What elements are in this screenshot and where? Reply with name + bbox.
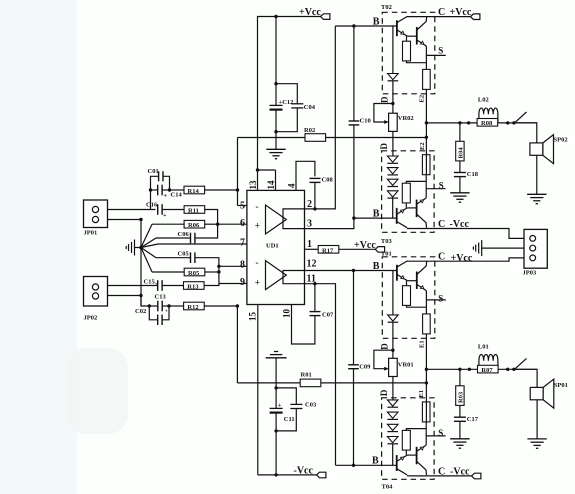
capacitor C09 [348, 271, 359, 466]
diode D lower single [388, 271, 399, 359]
resistor R06 [152, 220, 218, 228]
svg-text:R02: R02 [304, 127, 315, 134]
node C13 right junction [167, 304, 170, 307]
switch blade upper [514, 112, 527, 124]
resistor R13 [184, 282, 219, 290]
svg-text:D: D [379, 143, 389, 150]
svg-text:C02: C02 [135, 308, 146, 315]
capacitor C12 [270, 105, 283, 131]
svg-text:C11: C11 [284, 416, 295, 423]
svg-text:L01: L01 [478, 343, 489, 350]
svg-text:8: 8 [240, 260, 245, 271]
node T01 base junction [352, 269, 355, 272]
svg-text:C05: C05 [178, 251, 190, 258]
node R01 output junction [425, 381, 428, 384]
wire T02 base row [335, 25, 397, 27]
wire pin7 [141, 244, 247, 248]
svg-text:T02: T02 [381, 4, 392, 11]
svg-text:+: + [164, 193, 168, 200]
svg-text:JP03: JP03 [523, 270, 537, 277]
node C11 top junction [274, 386, 277, 389]
transistor T02 dashed box [382, 12, 435, 94]
node R03 junction [458, 368, 461, 371]
wire output rail lower [426, 368, 537, 370]
connector JP01 [84, 200, 108, 228]
resistor R01 [300, 379, 321, 387]
svg-text:C14: C14 [171, 192, 183, 199]
resistor R17 [318, 246, 339, 254]
connector JP03 [524, 229, 547, 268]
svg-text:S: S [438, 293, 443, 303]
capacitor C10 [349, 26, 360, 218]
svg-text:B: B [372, 456, 379, 467]
faint smudge [66, 348, 128, 434]
wire C12 branch vertical [275, 17, 277, 106]
svg-text:S: S [438, 428, 443, 438]
svg-text:C10: C10 [360, 118, 371, 125]
svg-text:B: B [373, 16, 380, 27]
capacitor C16 [158, 204, 184, 215]
connector JP02 [84, 277, 108, 307]
svg-text:5: 5 [240, 200, 245, 211]
node C01 left junction [149, 188, 152, 191]
node pin8 junction [217, 265, 220, 268]
wire to top-mid ground [275, 132, 277, 150]
node C11 bottom junction [274, 429, 277, 432]
op-amp B triangle [266, 261, 287, 290]
wire VR02 to diode chain [392, 131, 394, 156]
ground top-mid [266, 149, 285, 158]
node ground fan center [139, 246, 143, 250]
svg-text:C06: C06 [178, 231, 190, 238]
svg-text:+Vcc: +Vcc [299, 7, 321, 18]
capacitor C04 [276, 104, 303, 132]
wire T03 emitter to feedback node [425, 137, 427, 174]
svg-text:D: D [379, 389, 389, 396]
wire T02 emitter to output rail [425, 89, 427, 123]
resistor R04 [456, 123, 464, 161]
svg-text:R14: R14 [188, 188, 200, 195]
svg-text:+: + [255, 221, 260, 231]
svg-text:D: D [380, 96, 390, 103]
node R12 right junction [236, 304, 239, 307]
svg-text:VR02: VR02 [398, 115, 414, 122]
svg-text:R17: R17 [322, 247, 334, 254]
node L02 left junction [467, 121, 470, 124]
svg-text:+Vcc: +Vcc [451, 253, 473, 264]
svg-text:T04: T04 [382, 483, 394, 490]
speaker SP01 [530, 379, 554, 408]
ground C18 [450, 193, 469, 202]
svg-text:R11: R11 [188, 208, 199, 215]
speaker SP02 [530, 135, 554, 164]
svg-text:E2: E2 [419, 95, 426, 103]
node switch left junction [506, 121, 509, 124]
wire pin12 to T01 base [305, 270, 397, 272]
wire pin1 [305, 248, 319, 250]
node pin6 junction [216, 223, 219, 226]
node T03 base junction [352, 216, 355, 219]
resistor R11 [184, 206, 218, 225]
svg-text:R04: R04 [458, 147, 465, 159]
node junction top rail [274, 15, 277, 18]
wire C05R05 vertical [218, 266, 220, 283]
wire output to feedback node [425, 123, 427, 137]
wire fan to R06 [141, 224, 152, 247]
wire to speaker SP01 [514, 369, 537, 387]
resistor R12 [169, 302, 237, 310]
wire T01 collector C wire [407, 258, 524, 261]
diode D upper single [388, 26, 399, 113]
svg-text:R05: R05 [188, 270, 200, 277]
wire T04 base row [336, 464, 397, 466]
node VR01 top junction [391, 349, 394, 352]
svg-text:2: 2 [307, 199, 312, 210]
svg-text:R06: R06 [188, 222, 200, 229]
capacitor C05 [156, 252, 219, 266]
node -Vcc wire junction [274, 473, 277, 476]
svg-text:+Vcc: +Vcc [450, 7, 472, 18]
node C08 pin2 junction [313, 207, 316, 210]
wire T04 collector C wire [407, 475, 472, 477]
transistor T01 darlington pair [397, 261, 446, 334]
wire -Vcc bottom [258, 474, 317, 476]
wire SP01 to ground [536, 400, 538, 439]
svg-text:12: 12 [307, 258, 317, 269]
wire +Vcc top rail [258, 17, 321, 138]
node switch left junction lower [506, 368, 509, 371]
wire pin2 to T02 base riser [305, 26, 336, 209]
node C12 top junction [274, 82, 277, 85]
potentiometer VR01 [374, 350, 397, 376]
svg-text:-Vcc: -Vcc [450, 219, 470, 230]
ground SP02 [527, 194, 546, 203]
wire left rail to IC pin13 [257, 138, 259, 171]
svg-text:R08: R08 [481, 120, 493, 127]
wire to speaker SP02 [514, 123, 537, 143]
wire T04 emitter to R01 node [425, 383, 427, 422]
node output E junction lower [425, 368, 428, 371]
svg-text:-Vcc: -Vcc [294, 465, 314, 476]
resistor R02 [305, 134, 326, 142]
svg-text:3: 3 [307, 219, 312, 230]
svg-text:E1: E1 [418, 390, 425, 398]
transistor T01 dashed box [382, 257, 435, 339]
wire JP03 ground pin [482, 247, 524, 249]
svg-text:C: C [438, 219, 445, 230]
wire C04 branch top [276, 84, 297, 104]
svg-text:C08: C08 [322, 177, 334, 184]
svg-text:S: S [439, 181, 444, 191]
transistor T03 dashed box [382, 151, 435, 233]
wire C11 rail to -Vcc wire [275, 431, 277, 475]
transistor T02 darlington pair [397, 16, 446, 89]
node R14 feedback junction [236, 188, 239, 191]
svg-text:C: C [438, 7, 445, 18]
capacitor C17 [454, 405, 466, 438]
capacitor C08 [310, 178, 321, 209]
svg-text:9: 9 [240, 277, 245, 288]
capacitor C11 [270, 388, 283, 431]
wire R12 node down to R01 row [236, 306, 238, 383]
wire VR01 to diode chain [392, 377, 394, 400]
inductor L01 [479, 354, 498, 369]
wire R01 row [237, 382, 426, 384]
left margin tint band [0, 0, 77, 494]
node switch pivot junction lower [512, 368, 515, 371]
svg-text:R01: R01 [301, 371, 312, 378]
svg-text:JP02: JP02 [84, 315, 98, 322]
svg-text:7: 7 [240, 238, 245, 249]
node L01 left junction [468, 368, 471, 371]
ground bottom-mid [266, 352, 287, 388]
svg-text:JP01: JP01 [84, 230, 98, 237]
transistor T04 darlington pair [397, 402, 446, 475]
svg-text:-: - [256, 201, 259, 211]
svg-text:C18: C18 [467, 171, 479, 178]
svg-text:6: 6 [240, 218, 245, 229]
ground input fan [126, 240, 141, 256]
potentiometer VR02 [374, 104, 397, 132]
svg-text:+: + [278, 402, 282, 409]
transistor T04 dashed box [382, 398, 435, 480]
node switch pivot junction [512, 121, 515, 124]
svg-text:C: C [438, 466, 445, 477]
svg-text:R12: R12 [187, 304, 198, 311]
wire pin3 to T03 base [305, 218, 354, 229]
wire C14 node to C16 row [150, 190, 152, 210]
power flag +Vcc T02 [471, 14, 480, 20]
wire pin15 to -Vcc rail [257, 305, 259, 475]
node C13 left junction [148, 304, 151, 307]
svg-text:C13: C13 [155, 294, 167, 301]
svg-text:L02: L02 [478, 96, 489, 103]
svg-text:C: C [438, 252, 445, 263]
wire fan to C05 [141, 248, 156, 258]
node T04 base junction [352, 464, 355, 467]
svg-text:10: 10 [282, 309, 292, 319]
node R04 junction [458, 121, 461, 124]
svg-text:C16: C16 [146, 202, 158, 209]
svg-text:C17: C17 [467, 416, 479, 423]
capacitor C07 [310, 284, 321, 316]
inductor L02 [479, 108, 498, 123]
svg-text:R07: R07 [481, 367, 493, 374]
svg-text:UD1: UD1 [266, 243, 279, 250]
svg-text:-: - [256, 258, 259, 268]
ground SP01 [527, 439, 546, 448]
resistor R14 [170, 186, 238, 194]
wire pin8 [219, 265, 247, 267]
transistor T03 darlington pair [397, 155, 446, 228]
capacitor C01 [151, 171, 170, 190]
wire output to R01 node lower [425, 369, 427, 383]
wire rail corner to C13 [141, 296, 149, 307]
wire R17 to +Vcc flag [339, 248, 375, 250]
svg-text:C03: C03 [305, 401, 317, 408]
svg-text:13: 13 [248, 180, 258, 190]
wire feedback down to pin5 [237, 138, 239, 206]
wire T03 base row [354, 217, 397, 219]
power flag +Vcc mid [375, 247, 384, 253]
op-amp B output notch [283, 271, 304, 284]
wire T01 emitter to output rail [425, 334, 427, 369]
svg-text:+: + [163, 212, 167, 219]
wire T03 collector C wire [407, 229, 524, 239]
node pin13 junction [256, 168, 259, 171]
svg-text:C04: C04 [304, 104, 316, 111]
capacitor C03 [276, 388, 302, 431]
wire JP02 pin2 to rail [108, 295, 142, 297]
capacitor C13 [149, 301, 169, 312]
wire pin11 to T04 base riser [305, 284, 336, 466]
svg-text:SP01: SP01 [554, 382, 568, 389]
wire pin4 to C08 [296, 161, 315, 190]
power flag -Vcc T04 [472, 473, 481, 479]
svg-text:4: 4 [286, 183, 296, 188]
node C12 bottom junction [274, 130, 277, 133]
svg-text:C07: C07 [322, 312, 334, 319]
node VR02 top junction [391, 102, 394, 105]
wire input ground rail [140, 220, 142, 307]
svg-text:D: D [380, 343, 390, 350]
capacitor C18 [454, 161, 466, 193]
wire fan to C06 [141, 238, 156, 248]
op-amp U1 body [247, 190, 305, 304]
capacitor C02 bypass loop [149, 306, 169, 325]
node JP02 ground junction [139, 294, 142, 297]
svg-text:B: B [373, 261, 380, 272]
wire feedback R02 row [238, 137, 427, 139]
op-amp A output notch [283, 209, 304, 229]
wire T02 collector C wire [407, 16, 471, 18]
wire pins 13-14 tie [258, 170, 276, 190]
node R05 junction [217, 270, 220, 273]
resistor R07 [478, 365, 499, 373]
svg-text:+C12: +C12 [279, 99, 294, 106]
resistor R08 [477, 119, 498, 127]
node C07 pin11 junction [313, 282, 316, 285]
power flag -Vcc bottom [317, 472, 326, 478]
svg-text:+: + [155, 282, 158, 288]
diode chain lower [387, 400, 398, 465]
node JP01 ground junction [139, 218, 142, 221]
svg-text:C09: C09 [359, 363, 371, 370]
node T02 base junction [352, 24, 355, 27]
wire pin10 to C07 [292, 305, 315, 345]
switch blade lower [514, 358, 527, 370]
diode chain upper [387, 156, 398, 218]
svg-text:+Vcc: +Vcc [354, 240, 376, 251]
wire pin6 [218, 223, 247, 225]
wire JP01 pin1 to C16 [108, 209, 156, 211]
wire output rail upper [426, 122, 536, 124]
wire pin9 [219, 283, 247, 285]
svg-text:E1: E1 [419, 340, 426, 348]
svg-text:B: B [373, 209, 380, 220]
svg-text:SP02: SP02 [554, 136, 568, 143]
svg-text:14: 14 [266, 180, 276, 190]
resistor R05 [152, 268, 219, 276]
resistor R03 [456, 369, 464, 405]
svg-text:R13: R13 [187, 284, 199, 291]
node output E junction [425, 121, 428, 124]
svg-text:R03: R03 [458, 391, 465, 403]
svg-text:15: 15 [248, 312, 258, 322]
capacitor C15 [108, 280, 184, 291]
wire SP02 to ground [536, 155, 538, 194]
wire pin5 [238, 205, 247, 207]
wire fan to R05 [141, 248, 152, 273]
capacitor C06 [156, 224, 218, 243]
wire JP01 pin2 to ground rail [108, 219, 142, 221]
svg-text:+: + [165, 309, 168, 315]
capacitor C14 [151, 185, 170, 196]
op-amp A triangle [266, 205, 287, 234]
svg-text:T03: T03 [381, 238, 393, 245]
svg-text:-Vcc: -Vcc [450, 466, 470, 477]
svg-text:C01: C01 [148, 168, 159, 175]
svg-text:S: S [438, 45, 443, 55]
node feedback junction [425, 136, 428, 139]
svg-text:1: 1 [307, 239, 312, 250]
ground C17 [450, 439, 469, 448]
ground JP03 [473, 240, 481, 256]
svg-text:VR01: VR01 [398, 362, 414, 369]
svg-text:+: + [255, 277, 260, 287]
power flag +Vcc top [321, 14, 330, 20]
svg-text:E2: E2 [419, 142, 426, 150]
node C01 right junction [168, 188, 171, 191]
